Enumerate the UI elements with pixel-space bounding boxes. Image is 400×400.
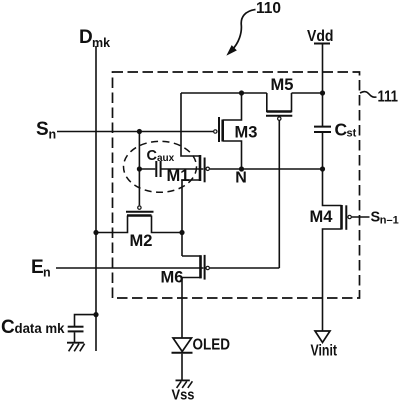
label En (31, 257, 51, 280)
node dot Sn branch (137, 129, 142, 134)
svg-text:n: n (49, 128, 57, 142)
label Sn (36, 119, 56, 142)
svg-text:n–1: n–1 (380, 215, 399, 227)
svg-text:M6: M6 (161, 268, 184, 286)
wire En horizontal (56, 267, 203, 269)
wire top rail (181, 92, 267, 94)
wire Caux to M1 (161, 168, 204, 170)
wire Vdd down (322, 44, 324, 94)
label 110 (256, 0, 281, 17)
svg-text:M3: M3 (235, 124, 258, 142)
svg-text:mk: mk (92, 36, 110, 50)
svg-text:C: C (1, 317, 15, 338)
svg-text:OLED: OLED (193, 337, 231, 354)
wire Dmk vertical (95, 46, 97, 351)
transistor M5 (271, 76, 294, 94)
svg-text:M2: M2 (130, 232, 153, 250)
wire M4 gate to Sn-1 (352, 216, 370, 218)
svg-text:M1: M1 (167, 167, 190, 185)
dashed ellipse around Caux/M1 (124, 141, 197, 192)
capacitor Cst (335, 120, 357, 140)
svg-text:M4: M4 (310, 208, 334, 226)
node dot Vdd/Cst (320, 90, 325, 95)
svg-text:Vss: Vss (172, 387, 195, 400)
diode OLED (173, 338, 192, 352)
svg-text:N: N (235, 170, 247, 187)
transistor M1 (167, 167, 190, 185)
label Dmk (79, 27, 110, 50)
svg-text:Vdd: Vdd (307, 28, 334, 45)
node dot M3 drain (239, 90, 244, 95)
svg-text:st: st (347, 128, 357, 140)
leader arrow for 110 (232, 10, 256, 51)
capacitor Cdata mk (1, 317, 65, 338)
transistor M6 (161, 268, 184, 286)
node N dot (239, 166, 244, 171)
terminal Vinit (315, 331, 330, 343)
wire Sn horizontal (57, 131, 213, 133)
wire M1 gate to N to Cst (210, 168, 323, 170)
node dot Dmk/Cdata (93, 312, 98, 317)
svg-text:S: S (36, 119, 49, 140)
transistor M3 (235, 124, 258, 142)
node dot Caux branch (137, 166, 142, 171)
Vdd terminal bar (314, 43, 330, 45)
label 111 (378, 89, 399, 106)
capacitor Caux (139, 168, 155, 170)
svg-text:E: E (31, 257, 44, 278)
transistor M2 (130, 232, 153, 250)
label Sn-1 (371, 210, 399, 227)
wire M5 gate down to M6 gate (278, 120, 280, 268)
svg-text:111: 111 (378, 89, 399, 106)
leader squiggle for 111 (360, 92, 377, 98)
transistor M4 (310, 208, 334, 226)
svg-text:Vinit: Vinit (311, 343, 338, 360)
node dot Dmk/M2 (93, 230, 98, 235)
svg-text:n: n (43, 266, 51, 280)
wire M6 gate to M5 gate line (210, 267, 279, 269)
svg-text:data mk: data mk (15, 320, 65, 336)
node dot Cst bottom (320, 166, 325, 171)
svg-text:D: D (79, 27, 93, 48)
label Caux (147, 148, 175, 164)
ground Vss (176, 379, 190, 381)
label Vdd (307, 28, 334, 45)
wire Sn branch down to M2 gate (138, 132, 140, 206)
svg-text:110: 110 (256, 0, 281, 17)
node dot M2/M1-M6 (179, 230, 184, 235)
ground for Cdata (67, 342, 84, 344)
svg-text:M5: M5 (271, 76, 294, 94)
dashed block border 111 (113, 72, 360, 298)
